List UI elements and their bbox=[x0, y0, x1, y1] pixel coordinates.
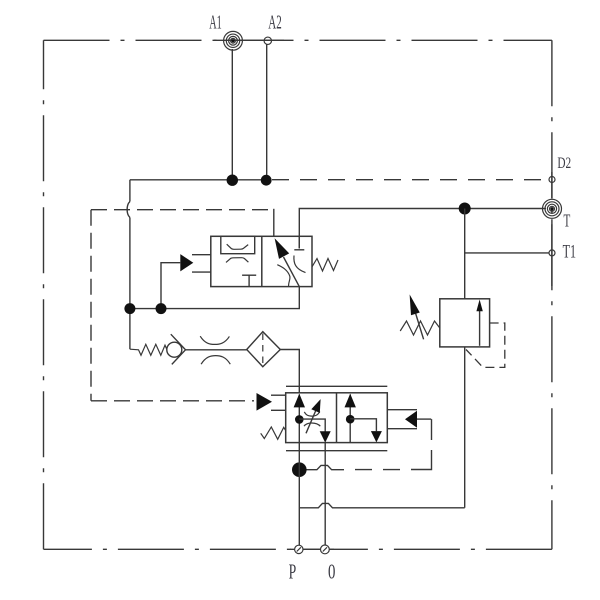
wire bottom link P to relief with hop over O bbox=[299, 503, 464, 507]
relief valve V3 body bbox=[440, 299, 490, 347]
V3 spring bbox=[400, 321, 440, 335]
wire T1 branch bbox=[465, 252, 549, 254]
port T1 bbox=[549, 250, 555, 256]
wire O line to port bbox=[324, 443, 326, 548]
wire dashed pilot loop to P line bbox=[306, 419, 432, 470]
V3 dashed pilot loop bbox=[466, 323, 505, 367]
V3 internal arrow bbox=[476, 300, 482, 346]
wire left vertical with crossing jog bbox=[127, 180, 130, 349]
node junction left bbox=[124, 303, 135, 314]
dashed enclosure left edge bbox=[90, 210, 92, 401]
wire P line to port bbox=[298, 443, 300, 548]
check valve spring bbox=[130, 344, 167, 355]
wire A1 drop bbox=[231, 49, 233, 180]
port A2 bbox=[264, 37, 271, 44]
svg-text:A2: A2 bbox=[268, 12, 281, 34]
V1 pilot actuator arrow bbox=[180, 254, 211, 272]
V2 left cell P path with up arrow bbox=[294, 394, 305, 443]
V2 adjustment arrow bbox=[306, 399, 321, 433]
node junction pilot bbox=[156, 303, 167, 314]
label T bbox=[564, 211, 571, 231]
label O bbox=[328, 560, 335, 584]
svg-text:A1: A1 bbox=[209, 12, 222, 34]
V2 lower stroke line bbox=[286, 450, 387, 452]
wire A2 drop bbox=[266, 44, 268, 180]
V2 body bbox=[286, 393, 388, 443]
wire tank line from valve to T bbox=[299, 209, 546, 249]
wire check valve to filter bbox=[186, 349, 247, 351]
V2 right cell branch with down arrow bbox=[350, 419, 382, 443]
dashed enclosure top edge bbox=[91, 209, 268, 211]
node junction tank line bbox=[459, 203, 471, 215]
wire V1 outlet down bbox=[130, 287, 299, 309]
check valve seat bbox=[171, 334, 186, 364]
pressure reducing valve V1 body bbox=[211, 236, 312, 286]
port A1 plugged bbox=[224, 31, 243, 50]
wire relief valve upper line bbox=[464, 209, 466, 299]
frame: block boundary dash-dot rectangle bbox=[44, 40, 552, 549]
node junction A2 bbox=[261, 175, 272, 186]
wire pilot line to V1 actuator bbox=[161, 263, 180, 309]
svg-text:P: P bbox=[289, 560, 297, 584]
svg-text:T1: T1 bbox=[563, 242, 576, 263]
V2 right cell path with up arrow bbox=[345, 394, 356, 443]
V1 metering orifice box bbox=[221, 236, 255, 262]
V1 spring bbox=[312, 259, 338, 272]
proportional throttle valve V2 upper stroke line bbox=[286, 385, 387, 387]
V1 internal flow curves bbox=[277, 256, 305, 287]
orifice restrictor bbox=[200, 336, 230, 364]
label T1 bbox=[563, 242, 576, 263]
V2 left cell junction dot bbox=[295, 415, 304, 424]
wire dashed drain line to D2 bbox=[272, 179, 547, 181]
svg-text:T: T bbox=[564, 211, 571, 231]
svg-text:0: 0 bbox=[328, 560, 335, 584]
wire pilot drop into reducing valve bbox=[273, 209, 275, 237]
V1 blocked port T bbox=[242, 236, 304, 286]
V2 right pilot actuator arrow bbox=[387, 410, 431, 429]
node junction P pilot big dot bbox=[292, 462, 307, 477]
port P bbox=[295, 545, 303, 553]
label A2 bbox=[268, 12, 281, 34]
label A1 bbox=[209, 12, 222, 34]
port O bbox=[321, 545, 330, 554]
V2 variable throttle arcs bbox=[304, 412, 320, 427]
V2 left return spring bbox=[261, 427, 286, 439]
dashed enclosure bottom edge / pilot feed bbox=[91, 400, 254, 402]
V1 flow path arrow bbox=[275, 238, 300, 286]
V2 left pilot actuator arrow bbox=[257, 393, 286, 411]
port T plugged bbox=[543, 199, 562, 218]
check valve ball bbox=[167, 342, 182, 357]
node junction A1 bbox=[227, 175, 238, 186]
V2 left cell branch to O with down arrow bbox=[299, 419, 330, 443]
V2 right cell junction dot bbox=[346, 415, 355, 424]
port D2 bbox=[549, 177, 555, 183]
label D2 bbox=[557, 155, 571, 172]
svg-text:D2: D2 bbox=[557, 155, 571, 172]
wire A1-A2 header bbox=[130, 179, 267, 181]
wire relief valve lower line bbox=[464, 347, 466, 508]
label P bbox=[289, 560, 297, 584]
wire filter to throttle valve bbox=[280, 350, 299, 393]
V3 adjustment arrow bbox=[410, 294, 424, 339]
filter F1 bbox=[247, 332, 281, 367]
